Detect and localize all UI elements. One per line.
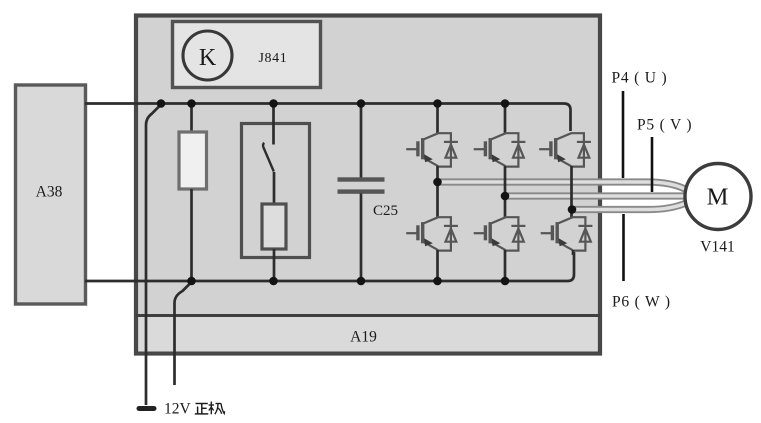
- capacitor C25 top plate: [338, 177, 385, 181]
- phase tube V (outer): [505, 192, 689, 199]
- capacitor C25 bottom plate: [338, 189, 385, 193]
- switch contact blade: [263, 143, 274, 172]
- wire: DC+ top bus from A38 to third inverter leg: [85, 104, 571, 132]
- inverter leg 2 collector wire: [504, 104, 507, 134]
- svg-text:V141: V141: [700, 239, 734, 256]
- junction dot top bus at precharge box: [269, 99, 278, 108]
- phase tube W (core): [572, 203, 686, 210]
- leg 2 midpoint wire: [504, 166, 507, 217]
- ground symbol (chassis bar): [137, 406, 157, 411]
- capacitor C25 bottom lead: [360, 194, 363, 282]
- svg-text:M: M: [707, 184, 729, 211]
- junction dot bottom bus at resistor: [187, 277, 196, 286]
- resistor R (discharge resistor) top lead: [190, 104, 193, 133]
- wire: DC- bottom bus from A38 to third inverter leg: [85, 252, 574, 281]
- svg-text:C25: C25: [373, 203, 398, 219]
- junction dot top bus at resistor: [187, 99, 196, 108]
- IGBT Q5 (top row, leg 3) with freewheel diode: [539, 133, 591, 166]
- glyph 正 (hand drawn): [195, 404, 209, 414]
- IGBT Q4 (bottom row, leg 2) with freewheel diode: [474, 217, 526, 250]
- junction dot top bus at ground branch: [157, 99, 166, 108]
- capacitor C25 top lead: [360, 104, 363, 180]
- svg-text:12V: 12V: [164, 401, 192, 418]
- relay coil K (circle): [183, 31, 232, 80]
- wire: 12V positive branch with curve: [175, 282, 192, 385]
- leg 1 emitter wire to bottom bus: [436, 250, 439, 281]
- wire into precharge box: [272, 104, 275, 145]
- precharge resistor body: [262, 204, 286, 249]
- leg 3 midpoint wire: [570, 166, 573, 217]
- control unit A38 box: [16, 85, 86, 304]
- svg-text:P5 ( V ): P5 ( V ): [637, 117, 692, 134]
- terminal pointer line P6: [622, 214, 625, 281]
- switch lower lead: [273, 172, 276, 204]
- IGBT Q6 (bottom row, leg 3) with freewheel diode: [541, 217, 593, 250]
- phase tube W (outer): [572, 203, 686, 210]
- inverter leg 1 collector wire: [436, 104, 439, 134]
- IGBT Q3 (top row, leg 2) with freewheel diode: [474, 133, 526, 166]
- junction dot bottom bus at precharge box: [269, 277, 278, 286]
- resistor R body: [179, 132, 207, 189]
- svg-text:A19: A19: [350, 329, 377, 346]
- terminal pointer line P5: [651, 137, 654, 192]
- junction dot top bus at leg 1: [433, 99, 442, 108]
- phase tube U (core): [438, 182, 687, 190]
- leg 1 midpoint wire: [436, 166, 439, 217]
- precharge resistor bottom lead: [273, 249, 276, 281]
- phase tube U (outer): [438, 182, 687, 190]
- resistor R bottom lead: [190, 189, 193, 281]
- motor V141 circle: [685, 164, 751, 230]
- A19 bottom strip divider: [136, 316, 600, 352]
- phase tube V (core): [505, 194, 689, 198]
- power module enclosure A19 box: [136, 16, 600, 354]
- IGBT Q1 (top row, leg 1) with freewheel diode: [406, 133, 458, 166]
- svg-text:J841: J841: [259, 51, 288, 66]
- leg 3 emitter wire to bottom bus corner: [572, 250, 575, 255]
- junction dot midpoint leg 2 (phase V): [501, 192, 510, 201]
- svg-text:A38: A38: [36, 184, 63, 201]
- IGBT Q2 (bottom row, leg 1) with freewheel diode: [406, 217, 458, 250]
- relay box J841: [173, 22, 321, 88]
- junction dot top bus at leg 2: [501, 99, 510, 108]
- junction dot bottom bus at capacitor: [357, 277, 366, 286]
- junction dot bottom bus at leg 1: [433, 277, 442, 286]
- junction dot midpoint leg 3 (phase W): [568, 205, 577, 214]
- svg-text:P6 ( W ): P6 ( W ): [612, 294, 671, 311]
- glyph 极 (hand drawn): [209, 402, 225, 415]
- svg-text:P4 ( U ): P4 ( U ): [612, 70, 668, 87]
- svg-text:K: K: [199, 45, 217, 71]
- junction dot top bus at capacitor: [357, 99, 366, 108]
- terminal pointer line P4: [622, 91, 625, 178]
- precharge relay box outline: [242, 124, 310, 258]
- leg 2 emitter wire to bottom bus: [504, 250, 507, 281]
- junction dot bottom bus at leg 2: [501, 277, 510, 286]
- wire: ground branch with curve (to chassis): [146, 105, 161, 406]
- junction dot midpoint leg 1 (phase U): [433, 178, 442, 187]
